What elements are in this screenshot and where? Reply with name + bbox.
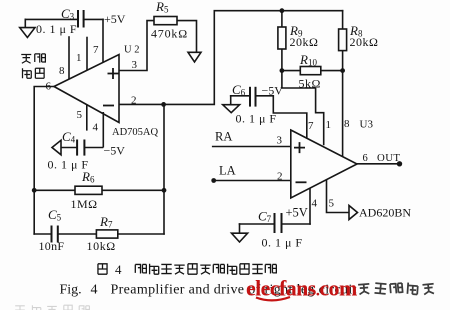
svg-text:+5V: +5V [104,12,126,26]
svg-text:3: 3 [277,135,283,147]
svg-text:470kΩ: 470kΩ [151,27,188,41]
svg-text:RA: RA [215,130,232,144]
svg-text:0. 1 μ F: 0. 1 μ F [36,22,77,36]
svg-text:4: 4 [312,198,318,210]
svg-text:U3: U3 [360,119,374,131]
svg-text:4: 4 [93,122,99,134]
svg-text:7: 7 [308,120,314,132]
svg-text:+5V: +5V [286,206,308,220]
svg-text:AD705AQ: AD705AQ [112,127,158,138]
svg-text:OUT: OUT [377,152,400,164]
svg-text:AD620BN: AD620BN [359,206,411,220]
svg-text:1MΩ: 1MΩ [71,197,98,211]
svg-text:5: 5 [77,109,83,121]
svg-text:6: 6 [46,81,52,93]
svg-text:−5V: −5V [104,144,126,158]
svg-text:2: 2 [277,171,283,183]
svg-text:3: 3 [132,59,138,71]
svg-text:20kΩ: 20kΩ [350,35,379,49]
svg-text:8: 8 [59,65,65,77]
svg-text:4: 4 [115,262,122,277]
svg-text:0. 1 μ F: 0. 1 μ F [262,236,303,250]
svg-text:10nF: 10nF [39,239,65,253]
svg-text:6: 6 [363,153,368,164]
svg-text:2: 2 [131,95,137,107]
svg-text:elecfans.com: elecfans.com [246,276,357,301]
svg-text:8: 8 [344,118,350,130]
svg-text:LA: LA [219,164,236,178]
svg-text:1: 1 [76,52,82,64]
svg-text:5: 5 [329,198,335,210]
svg-text:20kΩ: 20kΩ [290,35,319,49]
svg-text:0. 1 μ F: 0. 1 μ F [236,112,277,126]
svg-text:U 2: U 2 [124,45,139,56]
svg-text:7: 7 [93,44,99,56]
svg-text:10kΩ: 10kΩ [87,239,116,253]
svg-text:−5V: −5V [262,84,284,98]
svg-text:5kΩ: 5kΩ [299,77,321,91]
svg-text:1: 1 [326,119,332,131]
